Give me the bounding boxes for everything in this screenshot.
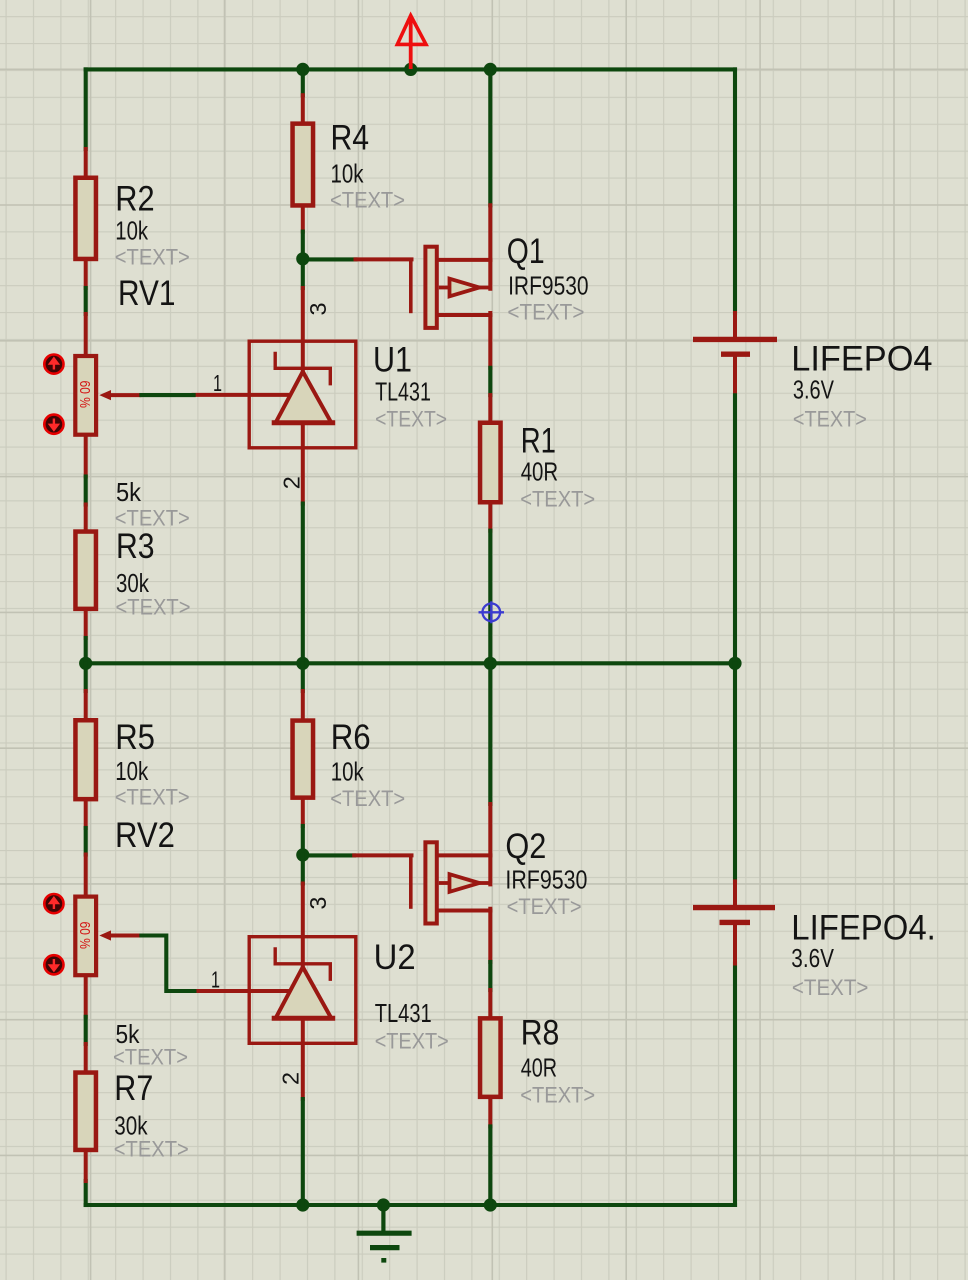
wire RV2-R7: [84, 1017, 88, 1044]
svg-text:<TEXT>: <TEXT>: [792, 975, 869, 1000]
resistor R6 body: [293, 721, 314, 798]
wire bottom rail: [86, 1203, 735, 1207]
pin R7 bottom: [84, 1152, 88, 1181]
wire U2-bottomrail: [301, 1099, 305, 1205]
svg-text:U2: U2: [374, 938, 416, 977]
wire gate node Q1 horizontal: [303, 257, 356, 261]
pin U2 ref 1: [194, 989, 287, 993]
resistor R2 body: [75, 178, 96, 259]
wire left rail top segment: [84, 69, 88, 149]
node mid rail / right: [728, 657, 741, 670]
wire BAT1-midrail: [733, 395, 737, 663]
svg-text:3.6V: 3.6V: [793, 375, 835, 405]
svg-text:2: 2: [279, 476, 305, 489]
IC U1 anode bar: [274, 420, 333, 425]
resistor R1 body: [480, 423, 501, 503]
svg-text:R5: R5: [115, 718, 155, 757]
pin R5 top: [84, 691, 88, 718]
pin BAT1 negative: [733, 357, 737, 395]
pin R7 top: [84, 1044, 88, 1070]
svg-text:1: 1: [211, 966, 220, 992]
resistor R7 body: [75, 1073, 96, 1150]
svg-text:<TEXT>: <TEXT>: [113, 1045, 188, 1070]
svg-text:2: 2: [278, 1072, 304, 1085]
wire toprail-Q1 drain: [488, 69, 492, 205]
node top rail / Q1 drain: [484, 63, 497, 76]
wire right rail bottom segment: [733, 964, 737, 1206]
pin R2 bottom: [84, 261, 88, 288]
svg-text:1: 1: [213, 370, 222, 396]
svg-text:3: 3: [305, 897, 331, 910]
svg-text:<TEXT>: <TEXT>: [793, 407, 867, 432]
svg-text:60 %: 60 %: [76, 922, 93, 950]
IC U2 cathode bent line: [275, 949, 330, 979]
node top rail / R4: [296, 63, 309, 76]
wire gate node-U2: [301, 855, 305, 884]
pin Q2 gate horizontal: [354, 853, 411, 857]
IC U1 box: [249, 341, 356, 448]
svg-text:<TEXT>: <TEXT>: [375, 407, 447, 432]
pin R8 bottom: [488, 1099, 492, 1126]
svg-text:60 %: 60 %: [76, 381, 93, 409]
pin R6 bottom: [301, 800, 305, 826]
pin RV1 bottom: [84, 437, 88, 477]
svg-text:R3: R3: [116, 527, 155, 566]
svg-text:<TEXT>: <TEXT>: [115, 785, 190, 810]
wire right rail top segment: [733, 69, 737, 313]
svg-text:10k: 10k: [331, 756, 365, 786]
wire mid rail: [86, 661, 735, 665]
pin U2 cathode 3: [301, 884, 305, 968]
pin Q1 source vertical: [488, 313, 492, 368]
wire gate node Q2 horizontal: [303, 853, 354, 857]
wire R2-RV1: [84, 288, 88, 314]
svg-text:U1: U1: [373, 341, 412, 380]
svg-text:LIFEPO4: LIFEPO4: [791, 340, 932, 379]
IC U1 triangle: [276, 372, 332, 423]
transistor Q2 source link: [439, 909, 491, 913]
pin U1 cathode 3: [301, 288, 305, 372]
svg-text:TL431: TL431: [375, 998, 432, 1028]
pin R1 bottom: [488, 505, 492, 531]
pin R1 top: [488, 395, 492, 420]
svg-text:RV1: RV1: [118, 274, 176, 313]
transistor Q2 gate plate: [409, 855, 413, 908]
wire RV2 wiper to U2: [141, 936, 194, 992]
svg-text:3: 3: [305, 303, 331, 316]
node mid rail / Q col: [484, 657, 497, 670]
origin marker: [479, 601, 505, 623]
resistor R4 body: [293, 124, 314, 206]
svg-text:3.6V: 3.6V: [791, 943, 834, 973]
wire left rail bottom segment: [84, 1181, 88, 1205]
node bottom rail / ground: [377, 1198, 390, 1211]
node gate Q2: [296, 848, 309, 861]
transistor Q2 drain link: [439, 853, 491, 857]
wire R3-midrail: [84, 638, 88, 663]
pin Q2 drain vertical: [488, 804, 492, 884]
svg-text:10k: 10k: [331, 159, 365, 189]
transistor Q2 substrate arrow: [439, 874, 491, 892]
svg-text:TL431: TL431: [375, 377, 431, 407]
svg-text:IRF9530: IRF9530: [508, 271, 588, 301]
node bottom rail / R8: [484, 1198, 497, 1211]
pin Q1 gate horizontal: [356, 257, 412, 261]
svg-text:Q1: Q1: [507, 232, 545, 271]
pin U1 anode 2: [301, 423, 305, 504]
battery BAT2 plates: [693, 908, 775, 923]
terminal marker RV1 down: [44, 415, 63, 434]
ground symbol: [357, 1205, 412, 1260]
IC U1 cathode bent line: [275, 354, 330, 384]
potentiometer RV1 body: [75, 356, 96, 435]
svg-text:R1: R1: [521, 421, 556, 460]
svg-text:LIFEPO4.: LIFEPO4.: [791, 909, 936, 948]
pin Q2 source vertical: [488, 909, 492, 962]
potentiometer RV2 wiper arrow: [99, 930, 141, 940]
wire Q2-R8: [488, 962, 492, 990]
wire U1-midrail: [301, 504, 305, 664]
pin U2 anode 2: [301, 1018, 305, 1099]
node gate Q1: [296, 252, 309, 265]
pin U1 ref 1: [194, 393, 287, 397]
wire R5-RV2: [84, 828, 88, 855]
svg-text:<TEXT>: <TEXT>: [507, 299, 584, 324]
IC U2 box: [249, 937, 356, 1044]
wire top rail: [86, 67, 735, 71]
svg-text:R4: R4: [331, 119, 370, 158]
pin RV1 top: [84, 314, 88, 354]
pin R3 bottom: [84, 611, 88, 638]
resistor R5 body: [75, 720, 96, 799]
wire R1-midrail: [488, 531, 492, 664]
resistor R3 body: [75, 532, 96, 609]
pin R4 bottom: [301, 208, 305, 232]
potentiometer RV2 body: [75, 897, 96, 976]
IC U2 anode bar: [274, 1016, 333, 1021]
svg-text:R2: R2: [115, 180, 154, 219]
svg-text:<TEXT>: <TEXT>: [115, 245, 190, 270]
transistor Q1 substrate arrow: [439, 279, 491, 297]
resistor R8 body: [480, 1018, 501, 1097]
transistor Q1 channel bar: [425, 247, 436, 328]
transistor Q1 source link: [439, 313, 491, 317]
svg-text:R7: R7: [114, 1069, 153, 1108]
pin Q1 drain vertical: [488, 205, 492, 288]
node mid rail / left: [79, 657, 92, 670]
pin BAT1 positive: [733, 313, 737, 339]
transistor Q2 channel bar: [425, 842, 436, 923]
battery BAT1 plates: [693, 339, 777, 354]
svg-text:<TEXT>: <TEXT>: [375, 1029, 449, 1054]
wire RV1 wiper to U1: [141, 393, 193, 397]
pin R5 bottom: [84, 801, 88, 828]
wire R6-gate node: [301, 826, 305, 855]
svg-text:40R: 40R: [521, 457, 559, 487]
svg-text:<TEXT>: <TEXT>: [330, 786, 405, 811]
svg-text:<TEXT>: <TEXT>: [114, 1137, 189, 1162]
svg-text:IRF9530: IRF9530: [505, 864, 587, 894]
svg-text:10k: 10k: [115, 216, 149, 246]
wire toprail-R4: [301, 69, 305, 95]
pin RV2 top: [84, 855, 88, 895]
svg-text:R6: R6: [331, 718, 371, 757]
pin R8 top: [488, 990, 492, 1016]
potentiometer RV1 wiper arrow: [99, 390, 141, 400]
pin R4 top: [301, 95, 305, 121]
IC U2 triangle: [276, 967, 332, 1018]
wire gate node-U1: [301, 259, 305, 288]
svg-text:40R: 40R: [521, 1052, 557, 1082]
power symbol VCC arrow: [397, 16, 426, 70]
svg-text:<TEXT>: <TEXT>: [520, 487, 595, 512]
transistor Q1 gate plate: [409, 260, 413, 313]
pin BAT2 negative: [733, 926, 737, 964]
terminal marker RV2 up: [44, 894, 63, 913]
wire midrail-BAT2: [733, 663, 737, 881]
wire R4-gate node: [301, 232, 305, 259]
wire R8-bottomrail: [488, 1126, 492, 1205]
transistor Q1 drain link: [439, 258, 491, 262]
wire midrail-R5: [84, 663, 88, 691]
svg-text:<TEXT>: <TEXT>: [116, 595, 191, 620]
terminal marker RV1 up: [44, 355, 63, 374]
pin R3 top: [84, 505, 88, 530]
svg-text:<TEXT>: <TEXT>: [330, 188, 405, 213]
terminal marker RV2 down: [44, 955, 63, 974]
wire RV1-R3: [84, 477, 88, 505]
node bottom rail / U2 anode: [296, 1198, 309, 1211]
wire midrail-Q2 drain: [488, 663, 492, 804]
svg-text:R8: R8: [521, 1014, 560, 1053]
pin BAT2 positive: [733, 881, 737, 907]
pin R6 top: [301, 691, 305, 718]
svg-text:Q2: Q2: [505, 827, 546, 866]
pin RV2 bottom: [84, 977, 88, 1017]
pin R2 top: [84, 149, 88, 176]
node top rail / power: [404, 63, 417, 76]
svg-text:<TEXT>: <TEXT>: [520, 1083, 595, 1108]
node mid rail / center: [296, 657, 309, 670]
svg-text:5k: 5k: [116, 477, 142, 507]
svg-text:RV2: RV2: [115, 816, 175, 855]
svg-text:10k: 10k: [115, 756, 149, 786]
svg-text:<TEXT>: <TEXT>: [507, 894, 582, 919]
wire midrail-R6: [301, 663, 305, 691]
svg-text:30k: 30k: [116, 568, 150, 598]
wire Q1-R1: [488, 368, 492, 395]
